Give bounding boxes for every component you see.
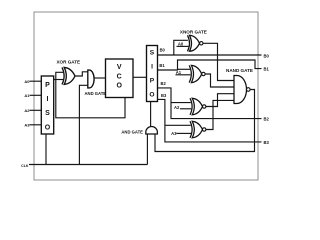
wire XNOR3 output to NAND input3: [206, 94, 234, 107]
node B2 output label: [264, 116, 270, 121]
wire PISO serial out to XOR input: [54, 79, 63, 81]
svg-text:C: C: [117, 73, 122, 80]
XOR GATE label: [56, 59, 80, 64]
wire CLK branch to AND gate lower input: [79, 85, 87, 164]
wire XNOR2 output to NAND input2: [205, 74, 234, 87]
wire B3 net to output and XOR4: [158, 99, 262, 141]
svg-text:O: O: [116, 83, 122, 90]
svg-text:B2: B2: [264, 116, 270, 121]
wire B1 net to output and XOR2: [158, 60, 262, 70]
wire B2 net to output and XOR3: [158, 88, 262, 119]
XOR gate U2: [62, 67, 75, 84]
wire NAND output feedback to AND gate: [155, 90, 255, 152]
node B0 SIPO output label: [160, 48, 166, 53]
svg-text:XOR GATE: XOR GATE: [56, 59, 80, 64]
SIPO shift register block: [147, 46, 158, 102]
wire CLK net: [29, 134, 147, 165]
svg-text:B3: B3: [264, 140, 270, 145]
wire VCO feedback to XOR top input: [56, 72, 125, 118]
svg-text:A1: A1: [24, 93, 30, 98]
svg-text:P: P: [45, 82, 50, 89]
node A1 input label: [24, 93, 30, 98]
XNOR gate U4: [188, 35, 204, 51]
svg-text:XNOR GATE: XNOR GATE: [180, 29, 207, 34]
svg-text:V: V: [117, 64, 122, 71]
wire A3 to XNOR4 input: [176, 132, 191, 134]
svg-text:A0: A0: [24, 79, 30, 84]
svg-text:CLK: CLK: [21, 164, 29, 168]
XNOR gate U7: [190, 121, 206, 138]
VCO block: [106, 59, 134, 98]
NAND GATE label: [226, 68, 253, 73]
node B0 output label: [264, 54, 270, 59]
wire A2 to PISO: [30, 109, 42, 111]
PISO shift register block: [41, 76, 53, 134]
node A0 input label: [24, 79, 30, 84]
svg-text:B3: B3: [161, 93, 167, 98]
XNOR GATE label: [180, 29, 207, 34]
node A1 label at XNOR2: [176, 70, 182, 75]
wire A1 to XNOR2 input: [176, 74, 191, 76]
wire AND output to VCO: [94, 77, 105, 79]
svg-text:A0: A0: [178, 41, 184, 46]
wire XNOR4 output to NAND input4: [206, 100, 234, 129]
svg-text:P: P: [150, 77, 155, 84]
wire A0 to XNOR input: [177, 45, 189, 47]
svg-text:O: O: [45, 124, 51, 131]
svg-text:S: S: [45, 110, 50, 117]
node A2 label at XNOR3: [174, 105, 180, 110]
AND GATE label (left): [85, 91, 107, 96]
svg-text:B0: B0: [160, 48, 166, 53]
node B1 output label: [264, 66, 270, 71]
svg-text:I: I: [47, 96, 49, 103]
node B3 output label: [264, 140, 270, 145]
node B1 SIPO output label: [159, 63, 165, 68]
wire A0 to PISO: [30, 80, 42, 82]
svg-text:A3: A3: [171, 131, 177, 136]
wire A3 to PISO: [30, 124, 42, 126]
wire A1 to PISO: [30, 94, 42, 96]
svg-text:A2: A2: [24, 108, 30, 113]
NAND gate U8: [234, 76, 250, 104]
node CLK label: [21, 164, 29, 168]
svg-text:B2: B2: [161, 81, 167, 86]
wire A2 to XNOR3 input: [180, 108, 191, 110]
svg-text:B1: B1: [159, 63, 165, 68]
node A3 label at XNOR4: [171, 131, 177, 136]
svg-text:A2: A2: [174, 105, 180, 110]
svg-text:AND GATE: AND GATE: [121, 129, 143, 134]
AND gate U3: [88, 70, 94, 88]
node B2 SIPO output label: [161, 81, 167, 86]
wire B0 net to output and XNOR: [158, 40, 262, 55]
svg-text:A3: A3: [24, 122, 30, 127]
wire AND9 output to SIPO: [150, 102, 152, 127]
XNOR gate U5: [189, 65, 205, 82]
svg-text:B1: B1: [264, 66, 270, 71]
node A3 input label: [24, 122, 30, 127]
svg-text:AND GATE: AND GATE: [85, 91, 107, 96]
wire XNOR1 output to NAND input1: [203, 43, 234, 80]
svg-text:O: O: [149, 91, 154, 98]
node B3 SIPO output label: [161, 93, 167, 98]
node A0 label at XNOR: [178, 41, 184, 46]
node A2 input label: [24, 108, 30, 113]
AND GATE label (bottom): [121, 129, 143, 134]
svg-text:B0: B0: [264, 54, 270, 59]
AND gate U9 (points up): [146, 127, 158, 134]
wire XOR output to AND gate: [75, 72, 88, 76]
wire VCO output to SIPO serial in: [133, 76, 147, 78]
svg-text:NAND GATE: NAND GATE: [226, 68, 253, 73]
svg-text:I: I: [151, 63, 153, 70]
XNOR gate U6: [190, 98, 206, 115]
svg-text:S: S: [150, 49, 155, 56]
wire CLK to AND9 input: [146, 134, 148, 165]
